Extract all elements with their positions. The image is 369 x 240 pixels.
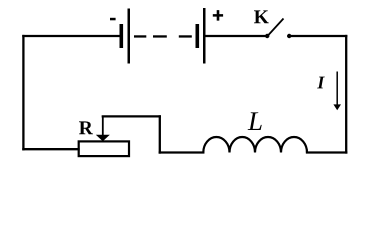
current arrow I <box>336 72 338 106</box>
battery label + <box>213 10 223 21</box>
wire left vertical <box>22 36 24 149</box>
switch K right contact <box>287 34 291 38</box>
wire top-left horizontal <box>23 35 120 37</box>
battery label - <box>110 18 116 21</box>
label I <box>317 77 325 89</box>
wire bottom to inductor <box>160 151 204 153</box>
battery cell 1 negative plate <box>120 24 124 48</box>
battery cell 1 positive plate <box>128 9 131 64</box>
wire battery to switch <box>206 35 267 37</box>
battery dashed link <box>134 35 146 37</box>
battery cell 2 positive plate <box>203 8 206 64</box>
wire wiper step vertical <box>159 116 161 152</box>
wire right vertical <box>345 36 347 153</box>
wire wiper horizontal <box>103 115 160 117</box>
inductor L coil <box>203 137 307 153</box>
label L <box>248 112 262 130</box>
switch K left contact <box>265 34 269 38</box>
battery cell 2 negative plate <box>196 24 200 48</box>
switch K blade <box>268 19 284 37</box>
wire switch to top-right corner <box>289 35 346 37</box>
label R <box>79 121 93 134</box>
label K <box>254 10 269 23</box>
rheostat R body <box>79 141 129 156</box>
wire inductor to bottom-right corner <box>307 151 346 153</box>
rheostat wiper arrow <box>102 116 104 135</box>
wire bottom-left to rheostat <box>23 148 78 150</box>
